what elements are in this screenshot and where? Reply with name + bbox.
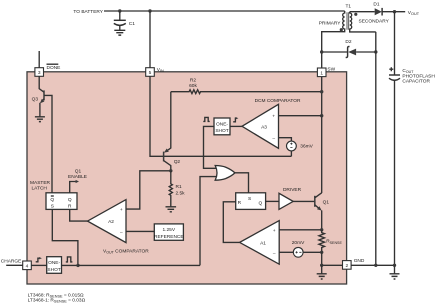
- svg-text:36mV: 36mV: [300, 144, 313, 150]
- svg-text:3: 3: [38, 70, 41, 76]
- svg-text:–: –: [120, 230, 123, 235]
- svg-text:Q2: Q2: [174, 159, 181, 165]
- svg-text:PRIMARY: PRIMARY: [319, 21, 342, 27]
- svg-text:DONE: DONE: [47, 65, 61, 71]
- svg-text:Q: Q: [259, 201, 263, 207]
- svg-text:R1: R1: [176, 184, 182, 190]
- svg-text:+: +: [120, 208, 123, 213]
- svg-text:+: +: [273, 229, 276, 234]
- svg-text:R: R: [68, 204, 72, 210]
- svg-text:DCM COMPARATOR: DCM COMPARATOR: [255, 98, 301, 104]
- svg-text:60k: 60k: [189, 83, 197, 89]
- svg-text:20mV: 20mV: [292, 240, 305, 246]
- svg-text:SHOT: SHOT: [47, 267, 60, 273]
- svg-text:A1: A1: [260, 240, 266, 246]
- svg-text:T1: T1: [345, 3, 351, 9]
- svg-text:Q1: Q1: [323, 199, 330, 205]
- svg-text:ONE-: ONE-: [48, 260, 60, 266]
- svg-text:MASTER: MASTER: [30, 180, 51, 186]
- svg-text:A2: A2: [108, 219, 114, 225]
- svg-text:CAPACITOR: CAPACITOR: [402, 79, 430, 85]
- svg-text:R: R: [238, 200, 242, 206]
- svg-text:ENABLE: ENABLE: [68, 174, 87, 180]
- svg-text:2: 2: [345, 263, 348, 269]
- svg-text:S: S: [51, 204, 54, 210]
- svg-text:CHARGE: CHARGE: [1, 258, 22, 264]
- svg-text:S: S: [248, 196, 251, 202]
- svg-text:SW: SW: [327, 67, 335, 73]
- svg-text:4: 4: [26, 263, 29, 269]
- svg-text:C1: C1: [129, 21, 135, 27]
- svg-text:TO BATTERY: TO BATTERY: [73, 9, 103, 15]
- svg-text:1.25V: 1.25V: [163, 227, 176, 233]
- svg-text:1: 1: [320, 70, 323, 76]
- svg-text:–: –: [272, 137, 275, 142]
- svg-text:LATCH: LATCH: [32, 186, 48, 192]
- svg-text:D1: D1: [373, 1, 379, 7]
- svg-text:5: 5: [149, 70, 152, 76]
- svg-text:2.5k: 2.5k: [176, 191, 186, 197]
- svg-text:DRIVER: DRIVER: [283, 187, 302, 193]
- svg-text:+: +: [272, 115, 275, 120]
- svg-text:GND: GND: [354, 258, 365, 264]
- svg-text:REFERENCE: REFERENCE: [154, 234, 184, 240]
- svg-text:PHOTOFLASH: PHOTOFLASH: [402, 73, 435, 79]
- svg-text:SECONDARY: SECONDARY: [359, 19, 390, 25]
- svg-text:A3: A3: [261, 124, 267, 130]
- svg-text:Q: Q: [50, 197, 54, 203]
- svg-text:Q: Q: [68, 197, 72, 203]
- svg-text:Q1: Q1: [75, 168, 82, 174]
- svg-text:ONE-: ONE-: [216, 121, 228, 127]
- svg-text:–: –: [273, 251, 276, 256]
- svg-text:SHOT: SHOT: [215, 128, 228, 134]
- svg-text:D2: D2: [345, 39, 351, 45]
- svg-text:Q3: Q3: [32, 97, 39, 103]
- svg-text:R2: R2: [190, 78, 196, 84]
